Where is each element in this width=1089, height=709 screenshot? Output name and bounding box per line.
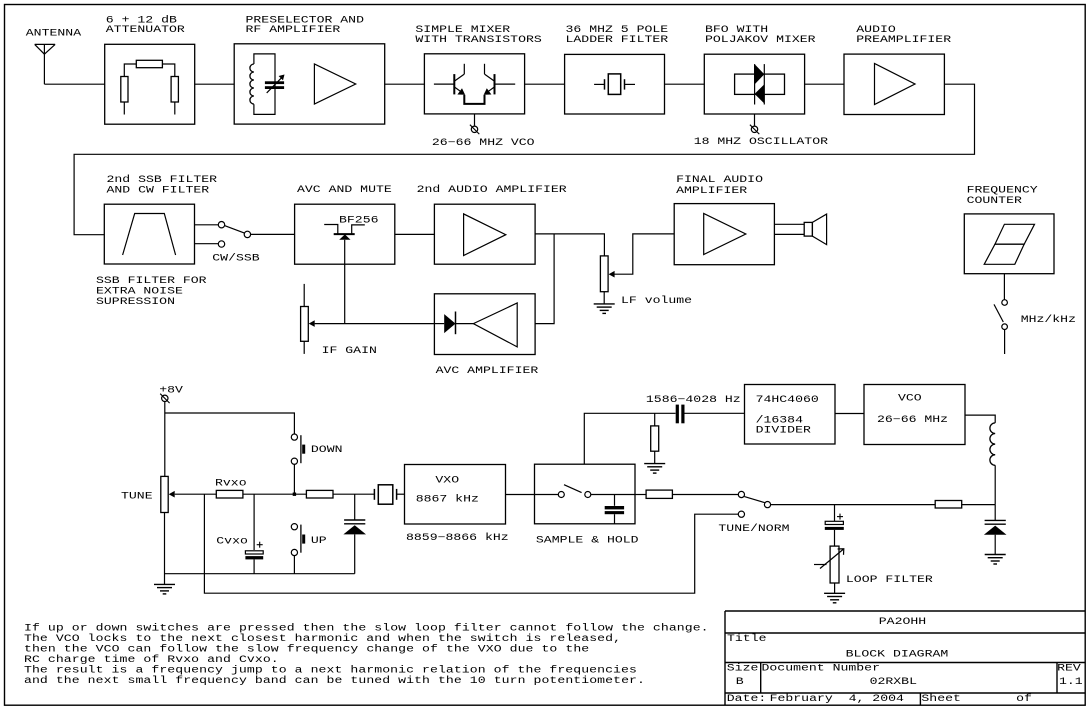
switch TUNE/NORM bbox=[738, 491, 744, 497]
svg-text:Sheet: Sheet bbox=[921, 693, 961, 704]
capacitor Cvxo bbox=[245, 551, 263, 554]
resistor attenuator series bbox=[136, 60, 162, 67]
potentiometer IF gain bbox=[301, 307, 309, 342]
op-amp 2nd audio amplifier bbox=[464, 214, 506, 256]
svg-text:DOWN: DOWN bbox=[311, 445, 343, 456]
varicap D4 bbox=[344, 519, 365, 521]
wire trimmer to ground bbox=[834, 583, 836, 593]
frequency counter block bbox=[964, 214, 1054, 274]
svg-text:AVC AND MUTE: AVC AND MUTE bbox=[297, 184, 392, 195]
svg-text:AND CW FILTER: AND CW FILTER bbox=[107, 185, 210, 196]
wire capacitor to trimmer bbox=[834, 530, 836, 546]
ground divider input bbox=[644, 463, 665, 465]
capacitor loop filter bbox=[834, 505, 836, 522]
svg-text:SUPRESSION: SUPRESSION bbox=[96, 296, 175, 307]
wire mixer VCO port bbox=[474, 114, 476, 126]
sample and hold block bbox=[535, 464, 636, 524]
svg-text:74HC4060: 74HC4060 bbox=[756, 394, 819, 405]
AVC amplifier block bbox=[434, 294, 535, 355]
ladder filter block bbox=[565, 54, 665, 114]
svg-text:1.1: 1.1 bbox=[1059, 677, 1083, 688]
display digit upper segment bbox=[995, 224, 1035, 244]
svg-text:DIVIDER: DIVIDER bbox=[756, 425, 811, 436]
VXO block bbox=[405, 465, 506, 525]
AVC and mute block bbox=[295, 204, 395, 264]
crystal Y1 ladder filter bbox=[594, 83, 604, 85]
display digit lower segment bbox=[984, 244, 1024, 264]
svg-text:TUNE: TUNE bbox=[121, 491, 153, 502]
wire varicap branch bbox=[354, 494, 356, 520]
final audio amplifier block bbox=[674, 204, 774, 265]
wire attenuator right leg bbox=[162, 64, 174, 77]
capacitor variable preselector bbox=[265, 81, 284, 84]
wire DOWN to junction bbox=[293, 464, 295, 494]
wire attenuator to RF amp bbox=[195, 83, 235, 85]
speaker LS1 bbox=[804, 222, 812, 236]
op-amp AVC amplifier bbox=[473, 303, 517, 347]
wire BFO diode loop bbox=[735, 74, 785, 94]
wire BFO oscillator port bbox=[754, 114, 756, 126]
svg-text:Document Number: Document Number bbox=[762, 663, 881, 674]
svg-text:Cvxo: Cvxo bbox=[216, 536, 248, 547]
wire antenna to attenuator bbox=[44, 83, 104, 85]
wire +8V rail bbox=[164, 402, 166, 477]
svg-text:18 MHZ OSCILLATOR: 18 MHZ OSCILLATOR bbox=[694, 136, 828, 147]
port 18 MHZ oscillator bbox=[751, 126, 757, 132]
svg-text:POLJAKOV MIXER: POLJAKOV MIXER bbox=[705, 34, 816, 45]
divider 74HC4060 block bbox=[745, 385, 836, 445]
wire SSB filter output upper bbox=[195, 224, 219, 226]
wire inductor to varicap bbox=[994, 465, 996, 504]
switch MHz/kHz bbox=[1002, 300, 1008, 306]
wire Cvxo branch bbox=[253, 494, 255, 550]
transistor BF256 JFET bbox=[334, 233, 355, 235]
switch sample bbox=[535, 494, 559, 496]
switch CW/SSB bbox=[218, 222, 224, 228]
antenna bbox=[35, 43, 55, 45]
capacitor hold bbox=[614, 495, 616, 506]
wire resistor to crystal bbox=[333, 493, 374, 495]
wire TUNE/NORM to VCO line bbox=[770, 504, 935, 506]
inductor VCO tank bbox=[990, 423, 995, 465]
svg-text:RF AMPLIFIER: RF AMPLIFIER bbox=[246, 24, 341, 35]
svg-text:26−66 MHZ VCO: 26−66 MHZ VCO bbox=[432, 137, 535, 148]
resistor to ground divider input bbox=[654, 413, 656, 426]
wire RF amp to mixer bbox=[385, 83, 425, 85]
wire Cvxo to ground bus bbox=[253, 559, 255, 573]
transistor Q2 mixer right bbox=[495, 83, 516, 85]
port 26-66 MHZ VCO bbox=[471, 126, 477, 132]
svg-text:2nd SSB FILTER: 2nd SSB FILTER bbox=[107, 175, 218, 186]
2nd audio amplifier block bbox=[434, 204, 535, 264]
wire counter to switch bbox=[1003, 274, 1005, 300]
wire capacitor to divider bbox=[685, 412, 745, 414]
svg-text:FREQUENCY: FREQUENCY bbox=[967, 185, 1038, 196]
resistor Rvxo bbox=[216, 490, 243, 498]
svg-text:TUNE/NORM: TUNE/NORM bbox=[718, 523, 789, 534]
wire mixer emitters join bbox=[464, 95, 484, 104]
BFO Poljakov mixer block bbox=[704, 54, 804, 114]
wire AVC amp output to IF gain bbox=[315, 323, 435, 325]
svg-text:MHz/kHz: MHz/kHz bbox=[1021, 315, 1076, 326]
resistor VCO control line bbox=[935, 501, 962, 509]
wire resistor to TUNE/NORM switch bbox=[672, 494, 738, 496]
svg-text:The VCO locks to the next clos: The VCO locks to the next closest harmon… bbox=[24, 633, 621, 644]
wire ground bus bbox=[165, 573, 355, 575]
2nd SSB filter block bbox=[104, 204, 194, 264]
svg-text:and the next small frequency b: and the next small frequency band can be… bbox=[24, 675, 645, 686]
mixer block bbox=[424, 54, 524, 114]
crystal Y2 VXO bbox=[373, 489, 375, 500]
svg-text:of: of bbox=[1016, 693, 1032, 704]
wire LF volume to ground bbox=[603, 292, 605, 304]
op-amp audio preamplifier bbox=[875, 64, 916, 105]
svg-text:then the VCO can follow the sl: then the VCO can follow the slow frequen… bbox=[24, 644, 589, 655]
wire resistor to varicap junction bbox=[962, 504, 996, 506]
svg-text:BLOCK DIAGRAM: BLOCK DIAGRAM bbox=[846, 649, 949, 660]
svg-text:1586−4028 Hz: 1586−4028 Hz bbox=[646, 394, 741, 405]
wire attenuator left leg bbox=[124, 64, 136, 77]
wire tap to AVC amplifier bbox=[535, 234, 554, 324]
svg-text:Rvxo: Rvxo bbox=[215, 478, 247, 489]
ground loop filter bbox=[824, 592, 845, 594]
VCO block bbox=[864, 385, 965, 445]
svg-text:ANTENNA: ANTENNA bbox=[26, 28, 81, 39]
svg-text:EXTRA NOISE: EXTRA NOISE bbox=[96, 286, 183, 297]
svg-text:AVC AMPLIFIER: AVC AMPLIFIER bbox=[436, 366, 539, 377]
svg-text:UP: UP bbox=[311, 535, 327, 546]
svg-text:AMPLIFIER: AMPLIFIER bbox=[676, 185, 747, 196]
wire AVC to 2nd audio amplifier bbox=[395, 233, 435, 235]
potentiometer LF volume bbox=[600, 256, 608, 292]
svg-text:February 4, 2004: February 4, 2004 bbox=[770, 693, 904, 704]
diode D3 AVC bbox=[434, 323, 444, 325]
title block frame bbox=[725, 610, 1085, 612]
svg-text:IF GAIN: IF GAIN bbox=[322, 345, 377, 356]
op-amp final audio amplifier bbox=[704, 214, 746, 255]
op-amp RF amplifier bbox=[314, 64, 355, 104]
svg-text:LF volume: LF volume bbox=[621, 296, 692, 307]
audio preamplifier block bbox=[844, 54, 944, 114]
diode D1 BFO upper bbox=[755, 64, 765, 84]
filter response curve bbox=[123, 214, 176, 256]
node junction dot bbox=[293, 493, 296, 496]
wire mixer to ladder filter bbox=[525, 83, 565, 85]
svg-text:The result is a frequency jump: The result is a frequency jump to a next… bbox=[24, 665, 637, 676]
diode D2 BFO lower bbox=[755, 84, 765, 103]
resistor sample hold output bbox=[646, 490, 672, 498]
wire Rvxo to junction bbox=[243, 493, 307, 495]
svg-text:02RXBL: 02RXBL bbox=[870, 677, 917, 688]
wire VXO to sample and hold bbox=[506, 494, 535, 496]
resistor R2 vxo line bbox=[306, 490, 333, 498]
wire final amp to speaker bbox=[774, 223, 804, 225]
ground LF volume bbox=[594, 303, 615, 305]
svg-text:RC charge time of Rvxo and Cvx: RC charge time of Rvxo and Cvxo. bbox=[24, 654, 279, 665]
transistor Q1 mixer left bbox=[434, 83, 454, 85]
svg-text:8867 kHz: 8867 kHz bbox=[416, 494, 479, 505]
wire 2nd amp output bbox=[535, 234, 604, 256]
wire switch to AVC block bbox=[251, 233, 295, 235]
wire LF volume wiper to final amp bbox=[614, 234, 674, 274]
svg-text:LOOP FILTER: LOOP FILTER bbox=[846, 574, 933, 585]
svg-text:CW/SSB: CW/SSB bbox=[212, 253, 259, 264]
svg-text:FINAL AUDIO: FINAL AUDIO bbox=[676, 175, 763, 186]
svg-text:REV: REV bbox=[1057, 663, 1081, 674]
svg-text:ATTENUATOR: ATTENUATOR bbox=[106, 24, 185, 35]
svg-text:LADDER FILTER: LADDER FILTER bbox=[566, 34, 669, 45]
ground TUNE bbox=[154, 583, 175, 585]
attenuator block bbox=[105, 44, 195, 124]
svg-text:26−66 MHz: 26−66 MHz bbox=[877, 414, 948, 425]
inductor preselector tank bbox=[254, 54, 275, 115]
svg-text:Title: Title bbox=[727, 633, 767, 644]
resistor attenuator shunt left bbox=[121, 77, 128, 103]
switch UP bbox=[291, 524, 297, 530]
switch DOWN bbox=[291, 434, 297, 440]
svg-text:COUNTER: COUNTER bbox=[967, 195, 1022, 206]
varicap D5 VCO bbox=[994, 505, 996, 520]
svg-text:VCO: VCO bbox=[898, 393, 922, 404]
svg-text:Size: Size bbox=[727, 663, 759, 674]
capacitor coupling 1586-4028 Hz bbox=[676, 405, 679, 424]
wire VCO output bbox=[965, 415, 995, 423]
svg-text:SSB FILTER FOR: SSB FILTER FOR bbox=[96, 275, 207, 286]
svg-text:WITH TRANSISTORS: WITH TRANSISTORS bbox=[415, 34, 541, 45]
svg-text:BF256: BF256 bbox=[339, 215, 379, 226]
preselector RF amplifier block bbox=[234, 44, 385, 124]
trimmer loop filter bbox=[830, 546, 839, 583]
svg-text:2nd AUDIO AMPLIFIER: 2nd AUDIO AMPLIFIER bbox=[417, 184, 567, 195]
ground varicap VCO bbox=[985, 554, 1006, 556]
svg-text:If up or down switches are pre: If up or down switches are pressed then … bbox=[24, 623, 709, 634]
resistor attenuator shunt right bbox=[171, 77, 178, 103]
wire UP to ground bus bbox=[293, 555, 295, 574]
svg-text:SAMPLE & HOLD: SAMPLE & HOLD bbox=[536, 535, 639, 546]
svg-text:+8V: +8V bbox=[159, 385, 183, 396]
svg-text:8859−8866 kHz: 8859−8866 kHz bbox=[406, 533, 509, 544]
wire divider to VCO bbox=[835, 413, 864, 415]
wire BFO to audio preamp bbox=[805, 83, 844, 85]
svg-text:PA2OHH: PA2OHH bbox=[879, 617, 926, 628]
svg-text:VXO: VXO bbox=[435, 475, 459, 486]
wire filter to BFO bbox=[665, 83, 705, 85]
svg-text:Date:: Date: bbox=[727, 693, 767, 704]
wire TUNE/NORM norm branch bbox=[204, 494, 738, 593]
svg-text:/16384: /16384 bbox=[756, 415, 803, 426]
wire sample and hold to divider bbox=[584, 413, 675, 464]
potentiometer TUNE bbox=[161, 476, 168, 512]
wire TUNE to ground bus bbox=[164, 513, 166, 585]
wire TUNE wiper to Rvxo bbox=[175, 493, 217, 495]
svg-text:PREAMPLIFIER: PREAMPLIFIER bbox=[856, 34, 951, 45]
wire preamp to 2nd SSB filter bbox=[74, 84, 974, 235]
svg-text:B: B bbox=[736, 677, 744, 688]
